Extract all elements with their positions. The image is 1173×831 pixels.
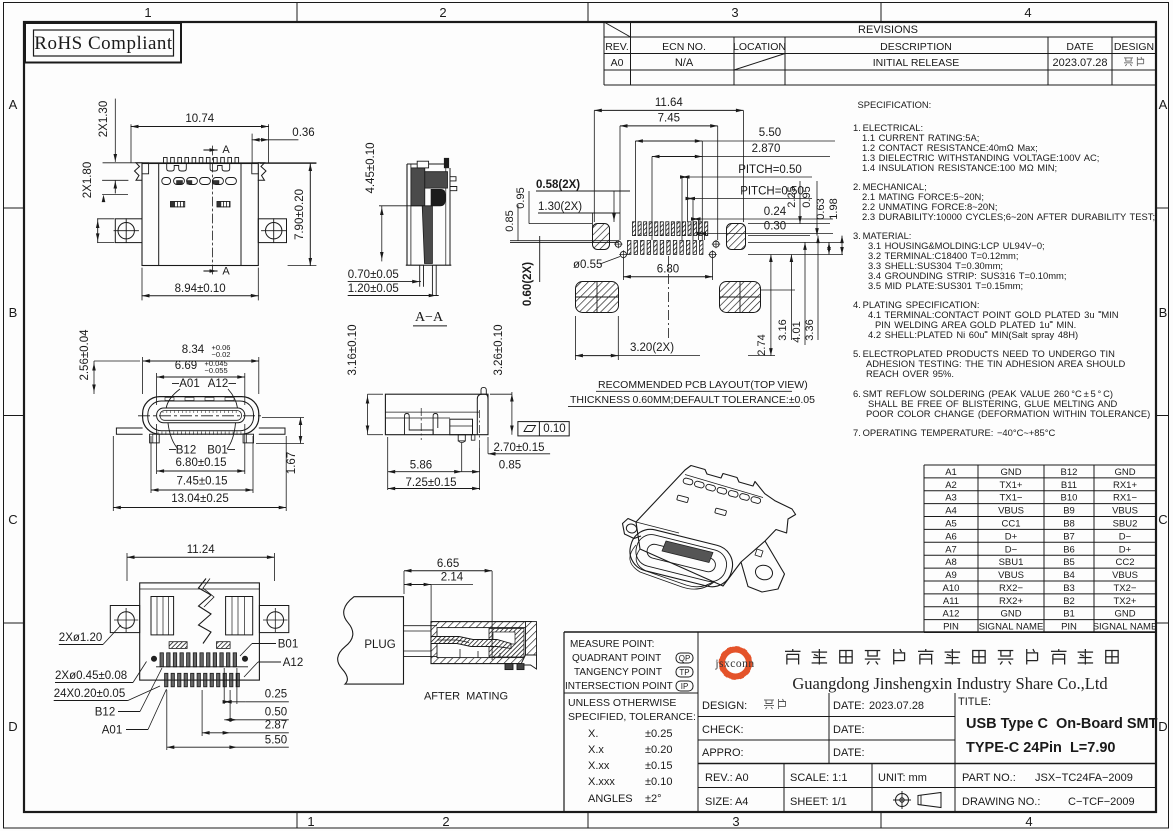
svg-text:B7: B7 xyxy=(1063,531,1075,542)
svg-text:2X1.80: 2X1.80 xyxy=(82,162,94,198)
right vertical dims 2.25 0.95 0.63 1.98 xyxy=(748,223,830,225)
svg-text:11.24: 11.24 xyxy=(187,544,216,556)
view: recommended PCB layout xyxy=(504,97,844,406)
right mounting tab xyxy=(258,219,286,243)
svg-text:A01: A01 xyxy=(102,725,122,737)
svg-text:GND: GND xyxy=(1000,609,1021,620)
svg-text:ECN NO.: ECN NO. xyxy=(662,41,706,53)
dim 6.80b xyxy=(622,258,624,280)
svg-text:A5: A5 xyxy=(945,518,957,529)
svg-text:MEASURE POINT:: MEASURE POINT: xyxy=(570,639,654,650)
view: connector front view xyxy=(79,329,304,511)
plug body xyxy=(338,597,404,684)
tongue slot xyxy=(157,408,245,423)
top notch xyxy=(417,161,428,168)
lower pad row xyxy=(628,241,631,255)
mid block xyxy=(450,419,473,435)
svg-text:TX1+: TX1+ xyxy=(1000,480,1023,491)
svg-text:N/A: N/A xyxy=(675,57,694,69)
row end dots xyxy=(151,656,156,661)
svg-text:8.34: 8.34 xyxy=(182,344,205,356)
svg-text:6.65: 6.65 xyxy=(437,558,459,570)
svg-text:APPRO:: APPRO: xyxy=(702,747,744,759)
PITCH=0.50 (1) xyxy=(681,177,683,240)
svg-text:A3: A3 xyxy=(945,493,957,504)
svg-text:4: 4 xyxy=(1025,814,1032,829)
svg-text:B11: B11 xyxy=(1061,480,1077,491)
svg-text:RoHS Compliant: RoHS Compliant xyxy=(34,33,173,54)
svg-text:B9: B9 xyxy=(1063,506,1075,517)
svg-text:DESIGN:: DESIGN: xyxy=(702,700,747,712)
top slots row xyxy=(683,478,694,486)
svg-text:CHECK:: CHECK: xyxy=(702,724,744,736)
solder feet xyxy=(458,435,465,441)
svg-text:PIN: PIN xyxy=(943,622,959,633)
hole circles xyxy=(620,251,626,257)
svg-text:7.90±0.20: 7.90±0.20 xyxy=(294,189,306,240)
view: section A-A xyxy=(348,142,457,325)
svg-text:0.50: 0.50 xyxy=(265,707,287,719)
svg-text:11.64: 11.64 xyxy=(655,97,684,109)
svg-text:B3: B3 xyxy=(1063,583,1075,594)
svg-text:D+: D+ xyxy=(1119,544,1132,555)
svg-text:1.67: 1.67 xyxy=(286,452,298,474)
svg-text:A: A xyxy=(222,266,230,278)
svg-text:SIGNAL NAME: SIGNAL NAME xyxy=(979,622,1044,633)
molding upper mid block xyxy=(425,172,448,188)
svg-text:B: B xyxy=(9,305,18,320)
title block frame xyxy=(564,631,1156,633)
svg-text:C: C xyxy=(8,512,17,527)
mid hatched latch rects xyxy=(171,202,185,207)
pin position dims xyxy=(166,690,168,750)
svg-text:DATE:: DATE: xyxy=(833,700,865,712)
svg-text:REV.: A0: REV.: A0 xyxy=(705,772,749,784)
svg-text:0.30: 0.30 xyxy=(764,221,786,233)
svg-text:RX1+: RX1+ xyxy=(1113,480,1137,491)
svg-text:5.50: 5.50 xyxy=(759,127,781,139)
svg-text:UNIT: mm: UNIT: mm xyxy=(878,772,927,784)
svg-text:7. OPERATING TEMPERATURE: −4: 7. OPERATING TEMPERATURE: −40°C~+85°C xyxy=(853,427,1055,438)
svg-text:A12: A12 xyxy=(208,378,228,390)
svg-text:B12: B12 xyxy=(95,707,115,719)
svg-text:±0.20: ±0.20 xyxy=(645,744,672,756)
svg-text:2.870: 2.870 xyxy=(752,143,781,155)
dim 0.30 xyxy=(704,234,706,241)
svg-text:0.60(2X): 0.60(2X) xyxy=(522,262,534,306)
svg-text:0.95: 0.95 xyxy=(515,187,527,208)
svg-text:0.36: 0.36 xyxy=(292,127,314,139)
svg-text:X.: X. xyxy=(588,728,598,740)
body outline xyxy=(142,164,258,266)
svg-text:B01: B01 xyxy=(207,445,227,457)
svg-text:GND: GND xyxy=(1000,467,1021,478)
svg-text:X.xx: X.xx xyxy=(588,760,610,772)
svg-text:0.24: 0.24 xyxy=(764,206,787,218)
svg-text:2Xø0.45±0.08: 2Xø0.45±0.08 xyxy=(55,670,127,682)
svg-text:A0: A0 xyxy=(611,57,624,69)
svg-text:REACH OVER 95%.: REACH OVER 95%. xyxy=(866,368,954,379)
dim 13.04±0.25 xyxy=(112,436,114,511)
svg-text:A10: A10 xyxy=(943,583,960,594)
svg-text:2.56±0.04: 2.56±0.04 xyxy=(79,329,91,381)
svg-text:TX1−: TX1− xyxy=(1000,493,1023,504)
svg-text:RX2+: RX2+ xyxy=(999,596,1023,607)
right dashdot xyxy=(479,410,481,448)
dim 11.24 xyxy=(126,553,128,581)
right side pad xyxy=(727,224,746,250)
svg-text:VBUS: VBUS xyxy=(998,570,1024,581)
svg-text:CC1: CC1 xyxy=(1001,518,1020,529)
upper pin row xyxy=(160,653,163,667)
svg-text:−0.055: −0.055 xyxy=(205,366,228,375)
svg-text:1: 1 xyxy=(144,5,151,20)
svg-text:SPECIFIED, TOLERANCE:: SPECIFIED, TOLERANCE: xyxy=(568,711,696,723)
front stadium outer xyxy=(626,525,737,591)
svg-text:JSX−TC24FA−2009: JSX−TC24FA−2009 xyxy=(1035,772,1133,784)
svg-text:USB Type C On-Board SMT: USB Type C On-Board SMT xyxy=(966,716,1158,732)
svg-text:0.10: 0.10 xyxy=(543,423,565,435)
RoHS Compliant stamp box xyxy=(25,23,181,63)
top shell face xyxy=(636,466,796,587)
svg-text:B10: B10 xyxy=(1061,493,1078,504)
right flange xyxy=(526,622,537,665)
svg-text:SIZE: A4: SIZE: A4 xyxy=(705,796,748,808)
molding hatched upper block xyxy=(411,168,425,206)
svg-text:DATE: DATE xyxy=(1066,41,1093,53)
right terminal hooks xyxy=(450,177,456,181)
dim 5.50b xyxy=(634,141,636,222)
svg-text:D−: D− xyxy=(1119,531,1132,542)
svg-text:1.98: 1.98 xyxy=(828,198,840,219)
svg-text:A7: A7 xyxy=(945,544,957,555)
svg-text:7.25±0.15: 7.25±0.15 xyxy=(405,477,456,489)
svg-text:2Xø1.20: 2Xø1.20 xyxy=(59,632,102,644)
section arrow A bottom xyxy=(204,270,217,272)
svg-text:TP: TP xyxy=(679,668,689,677)
svg-text:1.20±0.05: 1.20±0.05 xyxy=(348,283,399,295)
svg-text:A1: A1 xyxy=(945,467,957,478)
svg-text:TX2−: TX2− xyxy=(1114,583,1137,594)
svg-text:PART NO.:: PART NO.: xyxy=(962,772,1016,784)
tongue dark xyxy=(662,541,713,563)
dim 11.64 xyxy=(593,110,595,222)
center dashdot xyxy=(420,408,422,440)
svg-text:SBU2: SBU2 xyxy=(1113,518,1138,529)
svg-text:VBUS: VBUS xyxy=(1112,570,1138,581)
svg-text:DESIGN: DESIGN xyxy=(1114,41,1154,53)
svg-text:2023.07.28: 2023.07.28 xyxy=(869,700,924,712)
right big pad xyxy=(720,282,761,313)
projection angle symbol xyxy=(896,794,909,807)
svg-text:Guangdong Jinshengxin Industry: Guangdong Jinshengxin Industry Share Co.… xyxy=(792,674,1108,693)
svg-text:±0.15: ±0.15 xyxy=(645,760,672,772)
center break zigzag xyxy=(199,579,212,644)
legs below xyxy=(419,265,421,287)
svg-text:24X0.20±0.05: 24X0.20±0.05 xyxy=(54,688,126,700)
dim 8.94±0.10 xyxy=(141,268,143,300)
svg-text:0.85: 0.85 xyxy=(499,460,521,472)
svg-text:A: A xyxy=(1159,97,1168,112)
svg-text:C−TCF−2009: C−TCF−2009 xyxy=(1068,796,1135,808)
svg-text:±0.10: ±0.10 xyxy=(645,776,672,788)
svg-text:A12: A12 xyxy=(943,609,960,620)
svg-text:D−: D− xyxy=(1005,544,1018,555)
svg-text:DESCRIPTION: DESCRIPTION xyxy=(880,41,952,53)
svg-text:PITCH=0.50: PITCH=0.50 xyxy=(738,164,802,176)
svg-text:1.4 INSULATION RESISTANCE:10: 1.4 INSULATION RESISTANCE:100 MΩ MIN; xyxy=(862,162,1057,173)
centerline A-A xyxy=(211,146,213,276)
plug tongue lines xyxy=(404,625,437,627)
left ear xyxy=(623,519,642,539)
svg-text:B6: B6 xyxy=(1063,544,1075,555)
svg-text:1: 1 xyxy=(307,814,314,829)
svg-text:B2: B2 xyxy=(1063,596,1075,607)
svg-text:3: 3 xyxy=(731,5,738,20)
svg-text:0.25: 0.25 xyxy=(265,689,287,701)
small top notches xyxy=(165,398,174,401)
svg-text:A4: A4 xyxy=(945,506,957,517)
body outline xyxy=(385,394,488,435)
svg-text:±0.25: ±0.25 xyxy=(645,728,672,740)
svg-text:RECOMMENDED PCB LAYOUT(TOP: RECOMMENDED PCB LAYOUT(TOP VIEW) xyxy=(598,379,808,391)
svg-text:6.80: 6.80 xyxy=(657,264,679,276)
top inner hooks xyxy=(167,163,187,171)
dim 2.14 xyxy=(430,585,432,627)
top small rects xyxy=(677,495,689,503)
left big pad xyxy=(576,282,619,313)
upper pad row (24X) xyxy=(633,222,636,236)
front hooks xyxy=(405,414,434,435)
view: plug after mating xyxy=(338,558,537,703)
svg-text:PIN: PIN xyxy=(1061,622,1077,633)
section feet xyxy=(505,664,513,670)
svg-text:RX1−: RX1− xyxy=(1113,493,1137,504)
PITCH=0.50 (2) xyxy=(692,199,694,241)
svg-text:RX2−: RX2− xyxy=(999,583,1023,594)
side wings xyxy=(116,428,142,434)
front-left shell lines xyxy=(636,549,714,587)
svg-text:1.30(2X): 1.30(2X) xyxy=(538,201,582,213)
right corner flange with break xyxy=(258,163,266,181)
svg-text:2.14: 2.14 xyxy=(441,572,464,584)
pin assignment table xyxy=(924,464,1156,466)
top pin comb xyxy=(164,158,168,164)
svg-text:POOR COLOR CHANGE (DEFORMAT: POOR COLOR CHANGE (DEFORMATION WITHIN TO… xyxy=(866,408,1150,419)
receptacle section hatched xyxy=(431,622,532,664)
svg-text:ø0.55: ø0.55 xyxy=(573,259,602,271)
svg-text:5.50: 5.50 xyxy=(265,735,287,747)
contact blob xyxy=(431,189,445,205)
svg-text:TX2+: TX2+ xyxy=(1114,596,1137,607)
bottom serration xyxy=(157,432,159,435)
svg-text:0.85: 0.85 xyxy=(504,210,516,231)
svg-text:A6: A6 xyxy=(945,531,957,542)
svg-text:THICKNESS 0.60MM;DEFAULT TOL: THICKNESS 0.60MM;DEFAULT TOLERANCE:±0.05 xyxy=(570,394,815,406)
svg-text:7.45±0.15: 7.45±0.15 xyxy=(176,476,227,488)
svg-text:3.20(2X): 3.20(2X) xyxy=(630,342,674,354)
svg-text:B8: B8 xyxy=(1063,518,1075,529)
svg-text:B: B xyxy=(1159,305,1168,320)
svg-text:B5: B5 xyxy=(1063,557,1075,568)
tongue serration xyxy=(162,411,164,414)
svg-text:4.2 SHELL:PLATED Ni 60u˭ M: 4.2 SHELL:PLATED Ni 60u˭ MIN(Salt spray … xyxy=(868,329,1078,340)
svg-text:DATE:: DATE: xyxy=(833,724,865,736)
dense block right xyxy=(489,629,524,658)
svg-text:VBUS: VBUS xyxy=(1112,506,1138,517)
svg-text:TYPE-C 24Pin L=7.90: TYPE-C 24Pin L=7.90 xyxy=(966,740,1116,756)
view: connector bottom view xyxy=(54,544,304,750)
svg-text:LOCATION: LOCATION xyxy=(733,41,786,53)
molding strip down xyxy=(422,206,432,264)
title block grid lines xyxy=(698,716,955,718)
dim 7.45±0.15 xyxy=(150,436,152,493)
svg-text:3.16±0.10: 3.16±0.10 xyxy=(347,324,359,375)
svg-text:GND: GND xyxy=(1114,609,1135,620)
svg-text:X.xxx: X.xxx xyxy=(588,776,615,788)
svg-text:6.80±0.15: 6.80±0.15 xyxy=(175,457,226,469)
body outline xyxy=(140,583,260,680)
svg-text:REV.: REV. xyxy=(605,41,629,53)
svg-text:A−A: A−A xyxy=(415,310,444,325)
section arrow A top xyxy=(204,149,217,151)
back lip line xyxy=(685,475,763,498)
right shell bend xyxy=(477,394,488,435)
svg-text:0.63: 0.63 xyxy=(815,198,827,219)
svg-text:VBUS: VBUS xyxy=(998,506,1024,517)
svg-text:2.25: 2.25 xyxy=(786,186,798,207)
svg-text:QP: QP xyxy=(679,654,691,663)
svg-text:2: 2 xyxy=(442,814,449,829)
svg-text:SHEET: 1/1: SHEET: 1/1 xyxy=(790,796,847,808)
svg-text:3.5 MID PLATE:SUS301 T=0.15: 3.5 MID PLATE:SUS301 T=0.15mm; xyxy=(868,280,1023,291)
svg-text:AFTER MATING: AFTER MATING xyxy=(424,691,508,703)
svg-text:IP: IP xyxy=(681,682,689,691)
dim 7.45b xyxy=(619,126,621,240)
svg-text:3.36: 3.36 xyxy=(804,319,816,340)
dim 7.90±0.20 xyxy=(260,163,316,165)
svg-text:SCALE: 1:1: SCALE: 1:1 xyxy=(790,772,847,784)
location cell diagonal xyxy=(734,54,785,71)
company logo gear xyxy=(719,646,753,680)
mounting ears xyxy=(110,606,139,633)
svg-text:2.74: 2.74 xyxy=(756,334,768,355)
svg-text:0.70±0.05: 0.70±0.05 xyxy=(348,269,399,281)
top black tick xyxy=(444,158,449,168)
svg-text:A: A xyxy=(222,144,230,156)
dim 6.80±0.15 xyxy=(156,424,158,474)
svg-text:CC2: CC2 xyxy=(1115,557,1134,568)
svg-text:B4: B4 xyxy=(1063,570,1075,581)
flatness symbol xyxy=(518,422,569,436)
left mounting tab xyxy=(115,219,142,243)
svg-text:±2°: ±2° xyxy=(645,793,662,805)
svg-text:TANGENCY POINT: TANGENCY POINT xyxy=(574,667,662,678)
revisions table xyxy=(604,36,1156,38)
svg-text:7.45: 7.45 xyxy=(658,113,680,125)
svg-text:B01: B01 xyxy=(278,639,298,651)
svg-text:D: D xyxy=(1158,719,1167,734)
svg-text:10.74: 10.74 xyxy=(185,113,214,125)
dim 0.24 xyxy=(698,219,700,240)
svg-text:2023.07.28: 2023.07.28 xyxy=(1052,57,1107,69)
svg-text:6.69: 6.69 xyxy=(175,360,197,372)
svg-text:DATE:: DATE: xyxy=(833,747,865,759)
svg-text:A9: A9 xyxy=(945,570,957,581)
svg-text:TITLE:: TITLE: xyxy=(958,696,991,708)
view: 3D isometric connector xyxy=(623,466,796,593)
mating tongue xyxy=(431,637,511,649)
svg-text:13.04±0.25: 13.04±0.25 xyxy=(171,493,228,505)
view: connector top view xyxy=(82,99,316,300)
svg-text:2: 2 xyxy=(439,5,446,20)
right ear xyxy=(741,541,785,592)
top seating line xyxy=(103,162,316,164)
zone ticks left/right xyxy=(4,207,25,209)
svg-text:A11: A11 xyxy=(943,596,959,607)
tongue centerline xyxy=(138,415,262,417)
svg-text:SIGNAL NAME: SIGNAL NAME xyxy=(1093,622,1158,633)
lower pin row xyxy=(165,673,168,687)
svg-text:SBU1: SBU1 xyxy=(999,557,1024,568)
company chinese name xyxy=(785,650,801,652)
left horizontal connection lines xyxy=(510,240,618,242)
svg-text:0.95: 0.95 xyxy=(801,186,813,207)
svg-text:2X1.30: 2X1.30 xyxy=(98,101,110,137)
dim 3.20(2X) xyxy=(574,316,576,360)
section shell outline xyxy=(406,164,408,265)
svg-text:PLUG: PLUG xyxy=(364,639,395,651)
svg-text:D+: D+ xyxy=(1005,531,1018,542)
svg-text:B12: B12 xyxy=(176,445,196,457)
slot dark marks xyxy=(177,181,183,185)
svg-text:DRAWING NO.:: DRAWING NO.: xyxy=(962,796,1040,808)
svg-text:INTERSECTION POINT: INTERSECTION POINT xyxy=(565,681,673,692)
svg-text:B12: B12 xyxy=(1061,467,1078,478)
svg-text:QUADRANT POINT: QUADRANT POINT xyxy=(572,653,661,664)
dim 2.870 xyxy=(651,157,653,241)
svg-text:A12: A12 xyxy=(283,657,303,669)
svg-text:jsxconn: jsxconn xyxy=(714,658,754,670)
svg-text:C: C xyxy=(1158,512,1167,527)
inner shell walls xyxy=(151,597,174,635)
svg-text:INITIAL RELEASE: INITIAL RELEASE xyxy=(873,57,960,69)
svg-text:4.45±0.10: 4.45±0.10 xyxy=(365,142,377,193)
svg-text:4: 4 xyxy=(1024,5,1031,20)
svg-text:GND: GND xyxy=(1114,467,1135,478)
view: connector side view xyxy=(347,324,569,490)
outer shell rounded xyxy=(143,397,259,435)
left side pad xyxy=(593,224,610,250)
svg-text:REVISIONS: REVISIONS xyxy=(858,24,918,36)
svg-text:8.94±0.10: 8.94±0.10 xyxy=(175,283,226,295)
svg-text:SPECIFICATION:: SPECIFICATION: xyxy=(858,99,932,110)
dim tab height left xyxy=(97,219,99,243)
svg-text:A2: A2 xyxy=(945,480,957,491)
svg-text:3.16: 3.16 xyxy=(777,319,789,340)
zone ticks top/bottom xyxy=(296,3,298,23)
svg-text:4.01: 4.01 xyxy=(791,321,803,342)
svg-text:0.58(2X): 0.58(2X) xyxy=(536,179,580,191)
dim 10.74 xyxy=(130,125,132,163)
svg-text:3.26±0.10: 3.26±0.10 xyxy=(493,324,505,375)
svg-text:3: 3 xyxy=(732,814,739,829)
svg-text:A: A xyxy=(9,97,18,112)
side contact right xyxy=(755,549,763,557)
svg-text:UNLESS OTHERWISE: UNLESS OTHERWISE xyxy=(568,697,676,709)
latch hatched rects xyxy=(169,642,187,649)
svg-text:−0.02: −0.02 xyxy=(212,350,231,359)
